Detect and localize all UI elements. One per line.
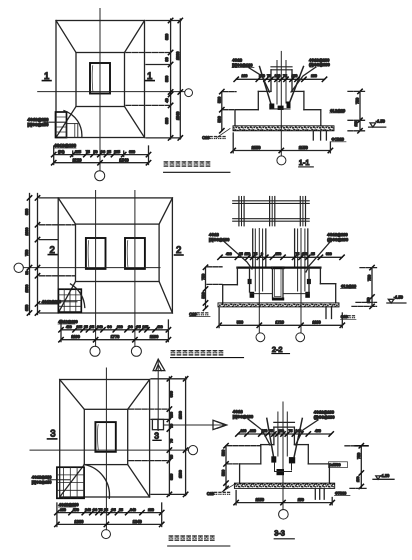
section 3-3 level mark -1.50 xyxy=(373,474,394,479)
plan 3 vertical axis centerline xyxy=(105,368,107,530)
plan 1 axis bubble right xyxy=(185,89,193,97)
svg-text:50: 50 xyxy=(94,150,98,154)
plan 3 corner detail arc xyxy=(84,465,109,499)
svg-text:300: 300 xyxy=(326,252,332,256)
section 3-3 title xyxy=(274,529,294,539)
svg-text:1500: 1500 xyxy=(179,470,183,478)
plan 3 footing inner step outline xyxy=(84,409,127,464)
section 2-2 mat leader lines xyxy=(326,307,332,319)
svg-text:1360: 1360 xyxy=(74,519,84,524)
plan 3 rebar label left xyxy=(32,476,70,485)
svg-text:1720: 1720 xyxy=(275,321,284,325)
plan 2 rebar label below detail xyxy=(58,320,78,324)
svg-text:70: 70 xyxy=(170,439,174,443)
svg-text:1100: 1100 xyxy=(150,334,159,339)
svg-text:1800: 1800 xyxy=(25,228,29,236)
section 2-2 title xyxy=(272,345,290,354)
svg-text:25: 25 xyxy=(84,325,88,329)
plan 3 section mark 3 right xyxy=(153,430,161,440)
section 1-1 level mark -1.50 xyxy=(369,118,386,127)
svg-text:4Φ18@200: 4Φ18@200 xyxy=(59,503,79,507)
svg-text:1776: 1776 xyxy=(111,334,121,339)
plan 2 horizontal axis centerline xyxy=(23,267,160,269)
svg-text:130: 130 xyxy=(275,74,281,78)
svg-text:800: 800 xyxy=(165,76,169,82)
section 1-1 vertical centerline xyxy=(280,51,282,155)
svg-text:1150: 1150 xyxy=(299,145,309,150)
svg-text:100: 100 xyxy=(311,74,317,78)
svg-text:(3)Φ8@200: (3)Φ8@200 xyxy=(327,237,349,242)
detail reference flag box xyxy=(152,419,163,429)
svg-text:300: 300 xyxy=(250,429,256,433)
plan 1 axis bubble bottom xyxy=(95,171,105,181)
svg-text:≥1500: ≥1500 xyxy=(331,463,341,467)
section 1-1 rebar V bars xyxy=(260,67,304,111)
plan 2 column B section xyxy=(125,238,145,269)
svg-text:75: 75 xyxy=(296,252,300,256)
section 2-2 pedestal top xyxy=(237,266,320,269)
section 2-2 axis bubble A xyxy=(256,333,265,342)
svg-text:520: 520 xyxy=(170,474,174,480)
svg-text:225: 225 xyxy=(77,325,83,329)
plan 3 axis bubble bottom xyxy=(102,530,111,539)
plan 3 section mark 3 left xyxy=(48,428,57,439)
svg-text:600: 600 xyxy=(117,325,123,329)
section 2-2 column A edges xyxy=(253,229,266,291)
section 1-1 label FL2 xyxy=(330,109,346,113)
svg-text:Φ6: Φ6 xyxy=(107,325,112,329)
svg-text:750: 750 xyxy=(357,453,361,459)
plan 1 column section xyxy=(90,63,110,94)
section 2-2 rebar label right xyxy=(306,232,349,272)
svg-text:25: 25 xyxy=(119,508,123,512)
section 3-3 top dimension line xyxy=(236,429,334,436)
section 2-2 level mark -1.50 xyxy=(387,295,406,304)
svg-text:Φ6: Φ6 xyxy=(128,325,133,329)
plan 1 title xyxy=(164,161,230,172)
section 2-2 rebar blobs column B xyxy=(284,268,311,298)
plan 2 section mark 2 right xyxy=(175,245,184,256)
plan 2 axis bubble bottom B xyxy=(131,346,141,356)
svg-text:(60): (60) xyxy=(58,150,64,154)
section 2-2 label C10 right xyxy=(341,315,357,319)
plan 1 slope diagonals xyxy=(56,21,145,138)
plan 2 title xyxy=(171,350,244,358)
svg-text:100: 100 xyxy=(241,429,247,433)
svg-text:[3]Φ8@100: [3]Φ8@100 xyxy=(232,63,253,68)
svg-text:15: 15 xyxy=(170,455,174,459)
svg-text:20: 20 xyxy=(170,424,174,428)
svg-text:920: 920 xyxy=(165,34,169,40)
svg-text:750: 750 xyxy=(356,98,360,104)
svg-text:640: 640 xyxy=(97,325,103,329)
section 1-1 blinding label C10 xyxy=(202,129,230,141)
svg-text:650: 650 xyxy=(25,305,29,311)
plan 3 axis bubble right xyxy=(188,446,197,455)
svg-text:500: 500 xyxy=(222,450,226,456)
plan 3 horizontal axis centerline xyxy=(30,449,188,451)
plan 2 corner detail arc xyxy=(71,284,85,308)
section 3-3 label PCB10 right xyxy=(335,491,351,495)
plan 3 dimension line row 2 xyxy=(55,519,164,527)
svg-text:750: 750 xyxy=(25,250,29,256)
svg-text:ΦL2@20: ΦL2@20 xyxy=(330,109,345,113)
plan 2 dimension line row 1 xyxy=(59,325,171,332)
section 2-2 center pit xyxy=(272,268,284,301)
svg-text:1300: 1300 xyxy=(176,52,180,60)
svg-text:-1.50: -1.50 xyxy=(376,118,386,123)
svg-text:150: 150 xyxy=(292,74,298,78)
plan 2 section mark 2 left xyxy=(48,245,57,256)
section 3-3 left vertical dimension xyxy=(222,444,260,491)
svg-text:400: 400 xyxy=(157,325,163,329)
svg-text:225: 225 xyxy=(75,150,81,154)
svg-text:750: 750 xyxy=(368,275,372,281)
plan 3 dimension extension lines xyxy=(57,503,162,527)
svg-text:1340: 1340 xyxy=(133,519,143,524)
svg-text:3: 3 xyxy=(50,428,55,439)
svg-text:1150: 1150 xyxy=(252,145,262,150)
section 3-3 axis bubble xyxy=(279,510,289,520)
svg-text:500: 500 xyxy=(222,470,226,476)
section 2-2 column centerline B xyxy=(300,229,302,333)
section 2-2 footing step profile xyxy=(223,268,336,304)
section 2-2 column B edges xyxy=(295,229,308,291)
plan 2 dimension line row 2 xyxy=(59,334,171,342)
svg-text:ΦL2@20: ΦL2@20 xyxy=(341,284,356,288)
plan 2 dimension extension lines xyxy=(61,320,168,342)
svg-text:500: 500 xyxy=(218,97,222,103)
plan 3 slope diagonals xyxy=(60,380,150,498)
section 2-2 column centerline A xyxy=(258,229,260,333)
svg-text:25: 25 xyxy=(104,508,108,512)
section 2-2 left vertical dimension xyxy=(201,265,207,310)
svg-text:75: 75 xyxy=(269,429,273,433)
section 1-1 bottom dimension line xyxy=(231,133,333,153)
svg-text:750: 750 xyxy=(201,274,205,280)
svg-text:150: 150 xyxy=(245,252,251,256)
svg-text:1540: 1540 xyxy=(176,112,180,120)
svg-text:150: 150 xyxy=(302,252,308,256)
plan 3 corner detail hatched box xyxy=(57,467,84,498)
svg-text:-1.50: -1.50 xyxy=(381,474,390,478)
svg-text:Φ5: Φ5 xyxy=(111,508,116,512)
section 1-1 left vertical dimension xyxy=(218,89,236,133)
svg-text:1500: 1500 xyxy=(179,411,183,419)
plan 1 dimension line row 2 xyxy=(52,157,151,165)
svg-text:1-1: 1-1 xyxy=(299,158,310,167)
section 1-1 label PCB10 xyxy=(331,138,346,142)
plan 2 left vertical dimension string xyxy=(25,194,40,316)
svg-text:600: 600 xyxy=(129,150,135,154)
plan 3 title xyxy=(168,535,230,546)
plan 2 axis bubble bottom A xyxy=(90,346,100,356)
svg-text:130: 130 xyxy=(278,429,284,433)
section 2-2 rebar label left xyxy=(209,232,252,269)
section 1-1 concrete mat with hatch xyxy=(233,126,334,131)
plan 2 vertical axis centerline B xyxy=(134,191,136,347)
svg-text:75: 75 xyxy=(283,74,287,78)
svg-text:25: 25 xyxy=(311,252,315,256)
svg-text:75: 75 xyxy=(86,150,90,154)
plan 2 vertical axis centerline A xyxy=(95,191,97,347)
section 1-1 column stub xyxy=(271,61,292,105)
section 2-2 extension dashes left xyxy=(207,267,222,285)
section 2-2 right vertical dimension xyxy=(352,265,377,308)
plan 2 slope diagonals xyxy=(58,198,172,313)
plan 1 corner detail hatched box xyxy=(56,112,78,138)
section 2-2 blinding label C10 left xyxy=(189,312,210,316)
svg-text:370: 370 xyxy=(276,252,282,256)
svg-text:C10: C10 xyxy=(202,136,209,140)
svg-text:Φ7000: Φ7000 xyxy=(335,491,346,495)
section 3-3 rebar label left xyxy=(233,409,270,445)
svg-text:C10: C10 xyxy=(207,492,214,496)
svg-text:Φ5: Φ5 xyxy=(90,325,95,329)
svg-text:1500: 1500 xyxy=(25,285,29,293)
detail reference vertical line with up arrow xyxy=(153,359,165,430)
svg-text:1100: 1100 xyxy=(71,334,80,339)
svg-text:40: 40 xyxy=(165,98,169,102)
svg-text:500: 500 xyxy=(237,321,243,325)
svg-text:Φ6: Φ6 xyxy=(100,150,105,154)
section 2-2 top dimension line xyxy=(218,252,344,259)
svg-text:640: 640 xyxy=(130,508,136,512)
svg-text:25: 25 xyxy=(107,150,111,154)
svg-text:100: 100 xyxy=(60,508,66,512)
svg-text:900: 900 xyxy=(25,209,29,215)
tie beam grid detail horizontal beam lines xyxy=(233,201,310,221)
section 3-3 right vertical dimension xyxy=(345,444,368,489)
svg-text:[3]Φ8@100: [3]Φ8@100 xyxy=(209,237,230,242)
svg-text:75: 75 xyxy=(254,252,258,256)
section 2-2 label JL2 right xyxy=(341,284,357,288)
svg-text:50: 50 xyxy=(25,271,29,275)
section 3-3 rebar label right xyxy=(296,410,336,446)
section 1-1 right vertical dimension xyxy=(348,89,365,133)
section 1-1 top dimension line xyxy=(234,74,327,81)
svg-text:100: 100 xyxy=(242,74,248,78)
svg-text:[3]Φ8@100: [3]Φ8@100 xyxy=(32,481,52,485)
plan 1 section mark 1 right xyxy=(146,71,155,82)
section 2-2 bottom dimension line xyxy=(217,308,345,328)
section 1-1 title xyxy=(299,158,314,167)
svg-text:400: 400 xyxy=(66,325,72,329)
plan 1 right vertical dimension string xyxy=(165,18,182,140)
svg-text:450: 450 xyxy=(315,429,321,433)
plan 1 corner detail arc xyxy=(64,111,82,138)
section 3-3 footing step profile xyxy=(240,445,330,484)
svg-text:150: 150 xyxy=(354,121,358,127)
svg-text:1540: 1540 xyxy=(119,157,129,162)
svg-text:600: 600 xyxy=(170,391,174,397)
plan 1 dimension extension lines xyxy=(54,146,149,165)
section 3-3 rebar V bars xyxy=(267,418,303,475)
plan 2 rebar label left xyxy=(42,300,77,304)
plan 2 footing outer outline xyxy=(58,198,172,313)
section 1-1 footing step profile xyxy=(235,91,321,126)
svg-text:-1.50: -1.50 xyxy=(394,295,404,300)
svg-text:Φ0: Φ0 xyxy=(93,508,98,512)
section 1-1 rebar label right xyxy=(291,58,331,93)
svg-text:[3]Φ8@100: [3]Φ8@100 xyxy=(233,414,254,419)
svg-text:C10: C10 xyxy=(189,312,196,316)
plan 2 footing inner step outline xyxy=(76,224,160,281)
plan 2 left extension dashes xyxy=(40,198,75,313)
svg-text:75: 75 xyxy=(289,429,293,433)
svg-text:1120: 1120 xyxy=(73,157,83,162)
svg-text:500: 500 xyxy=(201,292,205,298)
plan 1 section mark 1 left xyxy=(42,71,51,82)
svg-text:930: 930 xyxy=(165,118,169,124)
plan 1 right extension dashes xyxy=(126,21,181,138)
section 3-3 bottom dimension line xyxy=(234,491,335,505)
svg-text:240: 240 xyxy=(296,429,302,433)
svg-text:4Φ18@200: 4Φ18@200 xyxy=(54,143,77,148)
svg-text:225: 225 xyxy=(143,325,149,329)
tie beam grid detail column lines xyxy=(239,197,306,226)
svg-text:30: 30 xyxy=(165,57,169,61)
plan 2 axis bubble left xyxy=(14,263,23,272)
svg-text:75: 75 xyxy=(267,74,271,78)
plan 3 column section xyxy=(95,422,115,452)
svg-text:500: 500 xyxy=(218,116,222,122)
svg-text:3: 3 xyxy=(154,430,159,440)
svg-text:2-2: 2-2 xyxy=(272,345,283,354)
svg-text:150: 150 xyxy=(298,498,304,502)
plan 1 footing inner step outline xyxy=(76,53,125,107)
svg-text:4Φ18@200: 4Φ18@200 xyxy=(32,476,52,480)
plan 3 rebar label below detail xyxy=(58,503,78,507)
svg-text:(3)Φ8@200: (3)Φ8@200 xyxy=(309,62,331,67)
section 1-1 rebar label left xyxy=(232,58,270,92)
section 1-1 axis bubble xyxy=(277,156,286,165)
section 3-3 label ge1500 xyxy=(329,462,348,468)
plan 3 right vertical dimension string xyxy=(167,377,188,497)
section 3-3 mat leader lines xyxy=(315,488,324,499)
section 3-3 column stub xyxy=(274,412,295,456)
svg-text:100: 100 xyxy=(148,508,154,512)
section 3-3 vertical centerline xyxy=(282,402,284,510)
svg-text:ΦCB10: ΦCB10 xyxy=(332,138,344,142)
plan 2 column A section xyxy=(86,238,106,269)
plan 1 rebar label left xyxy=(28,117,67,127)
plan 3 footing outer outline xyxy=(60,380,150,498)
svg-text:400: 400 xyxy=(226,252,232,256)
plan 1 vertical axis centerline xyxy=(99,9,101,171)
svg-text:100: 100 xyxy=(170,412,174,418)
svg-text:0: 0 xyxy=(261,252,263,256)
plan 1 dimension line row 1 xyxy=(52,150,151,157)
svg-text:75: 75 xyxy=(99,508,103,512)
section 2-2 axis bubble B xyxy=(296,333,305,342)
svg-text:1150: 1150 xyxy=(256,497,265,502)
svg-text:(3)Φ8@200: (3)Φ8@200 xyxy=(314,414,336,419)
svg-text:270: 270 xyxy=(73,508,79,512)
section 2-2 rebar blobs column A xyxy=(248,268,272,298)
plan 1 horizontal axis centerline xyxy=(38,91,185,93)
svg-text:225: 225 xyxy=(114,150,120,154)
plan 1 footing outer outline xyxy=(56,21,145,138)
svg-text:3-3: 3-3 xyxy=(274,529,285,538)
section 3-3 blinding label C10 left xyxy=(207,484,236,496)
plan 1 bottom rebar label xyxy=(54,143,77,148)
detail reference leader to section 3-3 xyxy=(164,420,227,429)
section 2-2 concrete mat with hatch xyxy=(218,303,339,307)
svg-text:150: 150 xyxy=(356,476,360,482)
plan 2 corner detail hatched box xyxy=(58,289,81,312)
section 1-1 mat leader lines right xyxy=(313,131,326,140)
plan 3 right extension dashes xyxy=(129,379,187,495)
plan 3 dimension line row 1 xyxy=(55,508,164,515)
svg-text:Φ5: Φ5 xyxy=(136,325,141,329)
svg-text:1100: 1100 xyxy=(312,321,320,325)
section 3-3 concrete mat with hatch xyxy=(234,483,334,488)
svg-text:240: 240 xyxy=(85,508,91,512)
